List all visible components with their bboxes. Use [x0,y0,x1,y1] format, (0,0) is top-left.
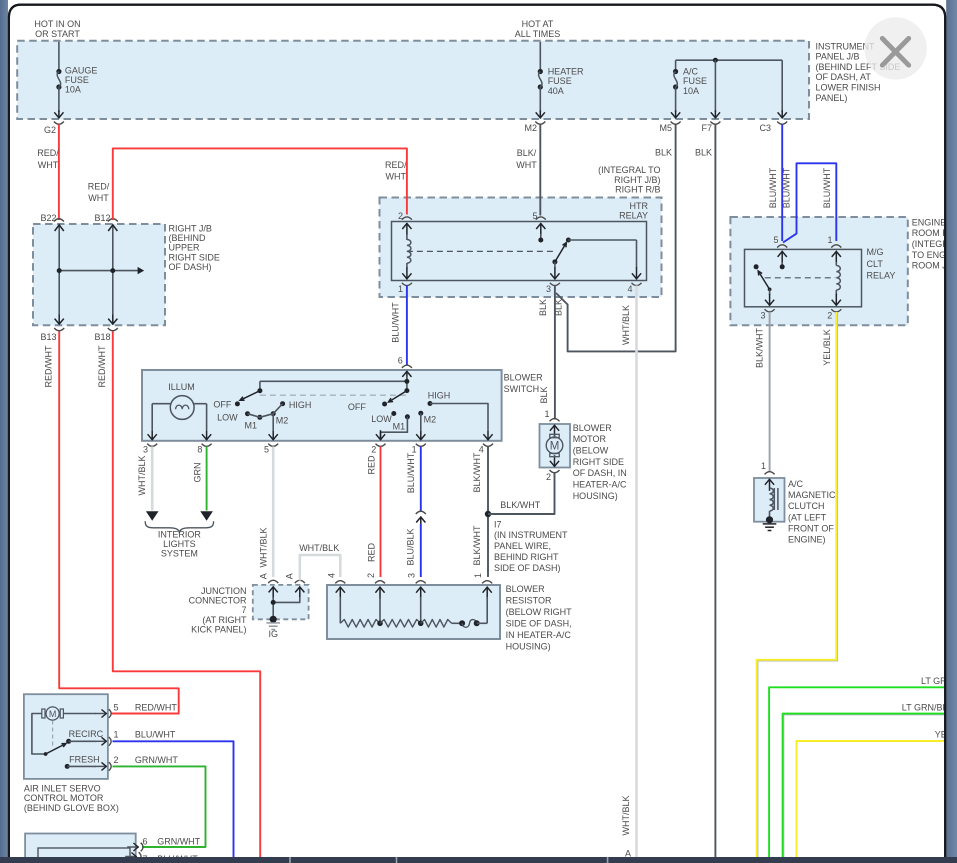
svg-text:1: 1 [114,730,119,740]
svg-text:8: 8 [197,445,202,455]
svg-text:BLK/WHT: BLK/WHT [500,500,541,510]
wire A/C fuse to M5 [675,87,677,112]
svg-text:LOWER FINISH: LOWER FINISH [816,83,881,93]
fuse HEATER FUSE 40A [538,69,543,74]
svg-text:OF DASH, IN: OF DASH, IN [573,468,627,478]
wire BLK/WHT I7 to blower motor pin 2 [488,473,555,515]
pin 7 A/C control assembly [125,856,137,858]
switch M/G relay [754,264,759,269]
svg-text:RIGHT R/B: RIGHT R/B [615,185,660,195]
node junction on A/C bus [713,58,718,63]
svg-text:RESISTOR: RESISTOR [506,596,552,606]
wire BLU/WHT HTR pin 1 to blower switch pin 6 [406,286,408,366]
svg-text:2: 2 [546,472,551,482]
svg-text:PANEL): PANEL) [816,93,848,103]
svg-text:M/G: M/G [867,247,884,257]
svg-text:ILLUM: ILLUM [168,382,195,392]
svg-text:RIGHT J/B): RIGHT J/B) [614,175,660,185]
svg-text:M2: M2 [276,416,289,426]
svg-text:FUSE: FUSE [65,75,89,85]
svg-text:RED/WHT: RED/WHT [43,345,53,387]
svg-text:SYSTEM: SYSTEM [161,549,198,559]
svg-text:WHT/BLK: WHT/BLK [258,527,268,567]
svg-text:GRN: GRN [192,463,202,483]
component BLOWER RESISTOR box [327,585,500,639]
svg-text:A/C: A/C [788,479,804,489]
wire BLU/WHT loop to M/G relay pin 1 [783,163,836,242]
svg-text:A: A [285,573,295,579]
pin G2 [54,122,64,125]
svg-text:HIGH: HIGH [428,391,451,401]
svg-text:CLT: CLT [867,259,884,269]
wire heater-fuse feed [539,42,541,72]
wire BLU/WHT C3 to M/G relay pin 5 [781,125,783,242]
pin 5 air inlet servo [95,713,107,715]
svg-text:1: 1 [761,461,766,471]
svg-text:OFF: OFF [348,402,366,412]
svg-text:4: 4 [326,573,336,578]
svg-text:WHT/BLK: WHT/BLK [621,305,631,345]
pin F7 [710,122,720,125]
pin A junction connector right [295,580,305,583]
svg-text:BLK/: BLK/ [517,148,537,158]
wire RED/WHT B18 down to page bottom [113,332,260,859]
svg-text:RED/WHT: RED/WHT [97,345,107,387]
svg-text:IN HEATER-A/C: IN HEATER-A/C [506,630,572,640]
link dashed blower switch [260,394,407,396]
junction block Instrument Panel J/B (top dashed box) [17,41,809,119]
svg-text:5: 5 [264,445,269,455]
switch blower pole 2 [406,376,408,391]
svg-text:HOT IN ON: HOT IN ON [34,19,80,29]
junction block Right J/B (dashed box) [33,224,165,325]
svg-text:1: 1 [398,284,403,294]
wire WHT/BLK HTR pin 4 to page bottom [635,286,638,859]
svg-text:WHT/BLK: WHT/BLK [299,543,339,553]
pin 4 HTR relay [636,267,638,279]
switch blower pole 1 [260,380,407,382]
pin 1 blower switch [420,430,422,440]
svg-text:M1: M1 [245,420,258,430]
svg-text:RED: RED [366,543,376,563]
svg-text:ENGINE: ENGINE [912,217,947,227]
svg-text:40A: 40A [548,86,564,96]
svg-text:RIGHT SIDE: RIGHT SIDE [169,252,220,262]
svg-text:(BEHIND: (BEHIND [169,233,207,243]
junction connector 7 (dashed box) [253,585,309,619]
component A/C MAGNETIC CLUTCH [754,478,785,522]
wire WHT/BLK pin5 to junction connector A [272,447,275,578]
wire RED/WHT G2 to B22 [58,125,60,221]
relay HTR RELAY (dashed box) [380,198,662,298]
svg-text:I7: I7 [494,519,502,529]
svg-text:BLK: BLK [539,386,549,403]
resistor element 2 [380,620,421,628]
svg-text:BLOWER: BLOWER [504,373,544,383]
svg-text:SIDE OF DASH,: SIDE OF DASH, [506,619,572,629]
wire internal bus arrow [59,270,139,272]
svg-text:MAGNETIC: MAGNETIC [788,490,836,500]
pin 6 A/C control assembly [127,846,139,848]
svg-text:M2: M2 [424,415,437,425]
svg-text:(BELOW: (BELOW [573,446,609,456]
svg-text:WHT: WHT [38,160,59,170]
node junction B12 bus [110,268,115,273]
wire BLK HTR pin 3 to blower motor [554,286,556,420]
svg-text:OFF: OFF [213,399,231,409]
motor M air inlet servo [42,709,45,718]
svg-text:INTERIOR: INTERIOR [158,529,202,539]
svg-text:4: 4 [627,284,632,294]
svg-text:WHT: WHT [516,160,537,170]
svg-text:M: M [49,709,57,719]
svg-text:AIR INLET SERVO: AIR INLET SERVO [24,783,101,793]
svg-text:FRESH: FRESH [69,755,100,765]
svg-text:7: 7 [241,605,246,615]
wire RED pin2 to blower resistor pin 2 [380,447,382,578]
link dashed HTR relay [407,250,555,252]
wire YEL/BLK M/G pin2 to bottom [758,312,838,858]
svg-text:JUNCTION: JUNCTION [201,586,247,596]
pin 2 M/G relay [835,294,837,306]
svg-text:RED: RED [366,455,376,475]
svg-text:YEL/BLK: YEL/BLK [822,329,832,366]
node I7 junction [485,511,491,517]
node ground dot A/C clutch [766,516,773,523]
wire WHT/BLK jog to resistor pin 4 [300,555,341,581]
close button [864,17,926,79]
pin 4 blower switch [487,430,489,440]
thermal fuse blower resistor [452,622,463,624]
svg-text:ALL TIMES: ALL TIMES [515,29,561,39]
svg-text:(INTEGRAL TO: (INTEGRAL TO [598,165,660,175]
svg-text:2: 2 [366,573,376,578]
relay HTR inner box [392,222,647,281]
svg-text:RED/: RED/ [88,181,110,191]
svg-text:BLU/WHT: BLU/WHT [781,167,791,208]
wire servo motor left loop [32,714,46,755]
pin M5 [671,122,681,125]
coil M/G relay [835,262,837,266]
svg-text:IG: IG [268,629,278,639]
svg-text:SWITCH: SWITCH [504,384,539,394]
pin 6 blower switch [406,371,408,383]
svg-text:RELAY: RELAY [619,211,648,221]
svg-text:BLK: BLK [538,299,548,316]
svg-text:RED/WHT: RED/WHT [135,702,177,712]
svg-text:HEATER-A/C: HEATER-A/C [573,480,627,490]
svg-text:CONTROL MOTOR: CONTROL MOTOR [24,793,104,803]
svg-text:A: A [258,573,268,579]
wire pin5 stub M/G [781,262,783,267]
component AIR INLET SERVO CONTROL MOTOR box [24,694,108,779]
viewer background strip right [946,0,957,863]
wire bus to C3 [781,60,783,112]
ground A/C clutch [763,523,777,525]
switch HTR relay contacts [552,259,557,264]
pin 2 blower motor [550,470,560,473]
svg-text:BLOWER: BLOWER [506,584,546,594]
svg-text:10A: 10A [683,86,699,96]
wire gauge fuse to G2 [58,87,60,112]
svg-text:UPPER: UPPER [169,243,201,253]
svg-text:1: 1 [473,573,483,578]
pin 1 HTR relay [406,267,408,279]
svg-text:5: 5 [773,235,778,245]
svg-text:1: 1 [544,409,549,419]
wire internal junction connector [272,597,274,619]
svg-text:10A: 10A [65,85,81,95]
svg-text:BLK/WHT: BLK/WHT [755,328,765,369]
pin 3 M/G relay [769,294,771,306]
svg-text:BLU/WHT: BLU/WHT [390,302,400,343]
svg-text:FUSE: FUSE [548,76,572,86]
svg-text:BLU/WHT: BLU/WHT [822,167,832,208]
wire GRN/WHT servo pin2 to A/C control pin 6 [113,766,206,847]
svg-text:M5: M5 [659,123,672,133]
svg-text:F7: F7 [701,123,712,133]
wire internal B22-B13 [58,225,60,315]
svg-text:PANEL WIRE,: PANEL WIRE, [494,541,551,551]
component inner box partial [38,848,130,863]
svg-text:(BEHIND GLOVE BOX): (BEHIND GLOVE BOX) [24,803,119,813]
svg-text:OF DASH, AT: OF DASH, AT [816,72,872,82]
svg-text:5: 5 [114,702,119,712]
svg-text:(BELOW RIGHT: (BELOW RIGHT [506,607,573,617]
fuse GAUGE FUSE 10A [56,69,61,74]
svg-text:BLU/BLK: BLU/BLK [406,528,416,565]
svg-text:ENGINE): ENGINE) [788,535,826,545]
svg-text:WHT/BLK: WHT/BLK [137,455,147,495]
svg-text:BLU/WHT: BLU/WHT [135,730,176,740]
node ground dot junction connector [270,616,277,623]
svg-text:RECIRC: RECIRC [69,729,104,739]
svg-text:GAUGE: GAUGE [65,65,98,75]
wire BLK M5 to HTR pin 3 [556,125,676,352]
svg-text:6: 6 [398,356,403,366]
wire GRN pin8 to interior lights [206,447,208,511]
svg-text:HEATER: HEATER [548,66,584,76]
svg-text:(IN INSTRUMENT: (IN INSTRUMENT [494,530,568,540]
svg-text:BEHIND RIGHT: BEHIND RIGHT [494,552,559,562]
wire servo motor to pin 5 [63,713,96,715]
svg-text:3: 3 [546,284,551,294]
svg-text:LOW: LOW [371,414,392,424]
svg-text:HOUSING): HOUSING) [506,642,551,652]
svg-text:CONNECTOR: CONNECTOR [189,596,247,606]
pin B18 [108,328,118,331]
ground IG [266,622,280,624]
wire RED/WHT B13 to air inlet servo pin 5 [59,332,179,714]
svg-text:PANEL J/B: PANEL J/B [816,52,860,62]
wire pin5 stub [540,234,542,240]
contact FRESH [65,764,70,769]
svg-text:CLUTCH: CLUTCH [788,501,825,511]
svg-text:RED/: RED/ [385,160,407,170]
svg-text:3: 3 [760,311,765,321]
viewer background strip left [0,0,8,863]
svg-text:(AT LEFT: (AT LEFT [788,512,827,522]
svg-text:M: M [550,441,560,453]
svg-text:WHT: WHT [386,172,407,182]
wire BLK/WHT M2 to HTR pin 5 [539,125,541,216]
svg-text:LIGHTS: LIGHTS [163,539,196,549]
svg-text:B18: B18 [94,332,110,342]
svg-text:(AT RIGHT: (AT RIGHT [202,615,247,625]
svg-text:RED/: RED/ [37,148,59,158]
pin A junction connector left [268,580,278,583]
svg-text:A/C: A/C [683,66,699,76]
wire BLK F7 to page bottom [714,125,716,859]
resistor element 1 [340,620,380,628]
wire BLK/WHT M/G pin3 to A/C clutch [769,312,771,471]
relay M/G CLT RELAY (dashed box Engine Room R/B) [730,217,907,325]
svg-text:WHT: WHT [88,193,109,203]
relay M/G CLT inner box [745,249,862,306]
svg-text:BLK: BLK [655,147,672,157]
coil HTR relay [406,234,408,240]
bottom toolbar [0,857,957,863]
svg-text:WHT/BLK: WHT/BLK [621,795,631,835]
wire LT GRN/BLK from right edge [784,715,944,858]
svg-text:LOW: LOW [217,412,238,422]
svg-text:M2: M2 [524,123,537,133]
svg-text:GRN/WHT: GRN/WHT [157,837,200,847]
switch servo blade [44,752,48,756]
component BLOWER SWITCH box [142,370,502,441]
wire resistor internals [339,597,341,623]
svg-text:BLK: BLK [695,147,712,157]
pin 3 HTR relay [554,267,556,279]
svg-text:BLU/WHT: BLU/WHT [768,167,778,208]
svg-text:1: 1 [827,235,832,245]
wire internal B12-B18 [112,225,114,315]
pin 2 air inlet servo [95,765,107,767]
svg-text:3: 3 [143,445,148,455]
wire WHT/BLK pin3 to interior lights [151,447,154,511]
svg-text:BLK/WHT: BLK/WHT [472,525,482,566]
wire BLK/WHT pin4 to I7 junction [487,447,489,578]
svg-text:2: 2 [827,311,832,321]
svg-text:GRN/WHT: GRN/WHT [135,755,178,765]
pin B13 [54,328,64,331]
svg-text:HOT AT: HOT AT [522,19,554,29]
wire heater fuse to M2 [539,87,541,112]
connector inline on blue wire [416,511,426,514]
svg-text:FUSE: FUSE [683,76,707,86]
pin M2 [535,122,545,125]
link dashed M/G relay [765,277,836,279]
wire BLU/BLK pin1 lower segment to resistor pin 3 [420,524,422,577]
pin 5 blower switch [272,430,274,440]
svg-text:OF DASH): OF DASH) [169,262,212,272]
svg-text:2: 2 [114,755,119,765]
pin C3 [777,122,787,125]
wire A/C fuse bus [676,59,783,61]
svg-text:FRONT OF: FRONT OF [788,523,834,533]
svg-text:RIGHT J/B: RIGHT J/B [169,224,212,234]
pin 1 air inlet servo [95,740,107,742]
page frame overlay [946,0,957,863]
brace interior lights [145,521,213,533]
contact RECIRC [66,739,71,744]
svg-text:B13: B13 [40,332,56,342]
svg-text:HIGH: HIGH [289,400,312,410]
svg-text:G2: G2 [44,125,56,135]
wire BLU/WHT servo pin1 to A/C control pin 7 [113,741,234,858]
link dashed servo [52,721,54,749]
wire gauge-fuse feed [58,42,60,72]
svg-text:KICK PANEL): KICK PANEL) [191,624,246,634]
component A/C control assembly (partial) [25,834,136,863]
svg-text:BLK/WHT: BLK/WHT [472,452,482,493]
node resistor junction pin3 [418,621,424,627]
svg-text:M1: M1 [393,421,406,431]
svg-text:OR START: OR START [35,29,80,39]
wire bus to F7 [714,60,716,112]
svg-text:BLOWER: BLOWER [573,423,613,433]
node resistor junction pin2 [377,621,383,627]
node junction B22 bus [57,268,62,273]
svg-text:SIDE OF DASH): SIDE OF DASH) [494,563,561,573]
fuse A/C FUSE 10A [673,69,678,74]
svg-text:3: 3 [407,573,417,578]
svg-text:6: 6 [143,837,148,847]
svg-text:2: 2 [371,445,376,455]
pin 8 blower switch [206,430,208,440]
wire RED/WHT B12 to HTR relay pin 2 [113,148,407,220]
wire BLU/WHT pin1 upper segment [420,447,422,512]
svg-text:RIGHT SIDE: RIGHT SIDE [573,457,624,467]
svg-text:MOTOR: MOTOR [573,434,607,444]
wire YEL from right edge [797,741,945,858]
resistor element 3 [421,620,452,628]
pin 2 blower switch [380,430,382,440]
svg-text:C3: C3 [759,123,771,133]
svg-text:RELAY: RELAY [867,270,896,280]
component BLOWER MOTOR [540,424,571,468]
svg-text:BLU/WHT: BLU/WHT [406,452,416,493]
svg-text:HOUSING): HOUSING) [573,491,618,501]
wire LT GRN from right edge [769,687,944,858]
pin 3 blower switch [151,430,153,440]
